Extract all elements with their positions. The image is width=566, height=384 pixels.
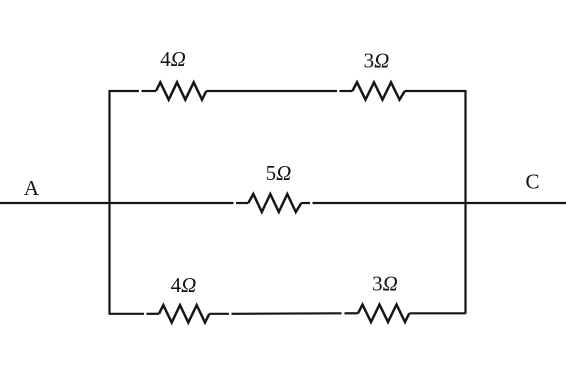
wire: bottom branch, R4 to gap — [209, 313, 229, 315]
svg-text:3Ω: 3Ω — [372, 272, 398, 296]
wire: left lead from node A to left rail — [0, 202, 110, 204]
svg-text:5Ω: 5Ω — [266, 161, 292, 185]
resistor R1 4Ω (top left) — [156, 82, 206, 99]
resistor R2 3Ω (top right) — [352, 82, 404, 99]
resistor R4 4Ω (bottom left) — [159, 305, 209, 322]
wire: bottom branch, rail to gap — [110, 313, 145, 315]
wire: left vertical rail — [108, 90, 110, 315]
wire: middle branch, left rail to gap — [110, 202, 234, 204]
svg-text:A: A — [24, 176, 40, 200]
wire: bottom branch, gap to R5 — [232, 312, 342, 315]
resistor R3 5Ω (middle) — [248, 194, 301, 212]
svg-text:4Ω: 4Ω — [160, 47, 186, 71]
wire: middle branch, gap to right rail — [313, 202, 466, 204]
wire: top branch, R1 to gap — [206, 90, 337, 92]
wire: right lead from right rail to node C — [466, 202, 566, 204]
wire: middle branch lead into R3 — [236, 202, 248, 204]
svg-text:4Ω: 4Ω — [171, 273, 197, 297]
wire: right vertical rail — [464, 90, 466, 314]
wire: top branch lead into R2 — [340, 90, 353, 92]
svg-text:C: C — [525, 170, 539, 194]
wire: top branch, R2 to right rail — [405, 90, 466, 92]
svg-text:3Ω: 3Ω — [364, 49, 390, 73]
wire: bottom branch lead into R5 — [345, 312, 359, 314]
wire: top branch, rail to R1 — [109, 90, 140, 92]
wire: bottom branch lead into R4 — [147, 313, 160, 315]
wire: middle branch lead out of R3 — [301, 202, 310, 204]
resistor R5 3Ω (bottom right) — [358, 305, 409, 322]
wire: top branch lead into R1 — [142, 90, 157, 92]
wire: bottom branch, R5 to right rail — [409, 312, 465, 314]
